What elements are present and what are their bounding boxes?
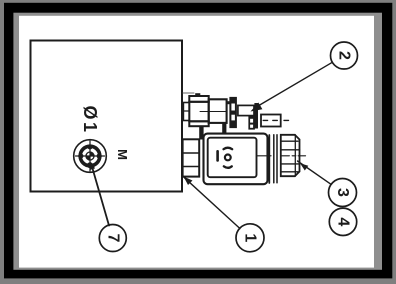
top fitting tab wedge (195, 93, 200, 97)
leader line to callout 2 (258, 62, 332, 106)
flange slot upper (231, 104, 235, 111)
solenoid nut top cap (189, 96, 208, 102)
knob crosshair horizontal (76, 155, 105, 157)
connector housing outer (204, 134, 268, 185)
solenoid cylinder (209, 99, 227, 123)
mounting pin right (222, 123, 226, 134)
callout circle 2 (331, 42, 358, 69)
knob petal S (87, 162, 93, 168)
leader line to callout 7 (92, 165, 110, 226)
top fitting faint line (183, 92, 194, 94)
lower flange plate (249, 117, 254, 130)
cap chamfer line (294, 135, 296, 176)
knob target quadrant NE (90, 152, 94, 156)
knob target quadrant SW (86, 156, 90, 160)
arrowhead leader 1 (184, 177, 193, 186)
callout circle 7 (99, 225, 126, 252)
knurled cap (281, 135, 300, 176)
svg-text:4: 4 (335, 217, 352, 226)
callout circle 4 (329, 208, 356, 235)
connector symbol bar (216, 150, 219, 162)
leader line to callout 3 (298, 161, 332, 184)
valve body box (31, 41, 183, 192)
gland line b (276, 135, 278, 183)
gland ring line (268, 135, 270, 183)
center dash c (298, 155, 305, 157)
connector symbol circle (225, 155, 231, 161)
center dash a (258, 155, 272, 157)
port center dash c (284, 119, 289, 121)
knob knurled ring (80, 146, 100, 166)
svg-text:7: 7 (104, 234, 121, 243)
knob crosshair vertical (89, 141, 91, 171)
cap rib 1 (281, 140, 298, 142)
cap rib 2 (281, 149, 300, 151)
connector symbol arc top (224, 148, 233, 150)
solenoid axis line (200, 111, 226, 113)
lower flange slot a (250, 119, 253, 123)
svg-text:2: 2 (336, 51, 353, 60)
knob petal W (78, 153, 83, 158)
leader line to callout 1 (184, 177, 240, 228)
terminal stack line a (183, 152, 200, 154)
arrowhead leader 3 (300, 163, 308, 170)
white drawing background (19, 16, 374, 268)
port cylinder F (261, 115, 281, 127)
mounting pin left (199, 126, 203, 139)
C-D junction tab (227, 101, 230, 104)
adjustment knob outer circle (74, 140, 107, 173)
arrowhead leader 7 (91, 162, 96, 170)
knob petal N (87, 144, 92, 149)
vertical flange bar G (254, 103, 258, 129)
terminal stack line b (183, 166, 200, 168)
lower flange slot b (250, 125, 253, 128)
callout circle 3 (329, 179, 357, 207)
knob target circle (86, 152, 94, 160)
callout circle 1 (236, 224, 264, 252)
coupler block E (238, 105, 254, 115)
svg-text:M: M (115, 149, 130, 160)
center dash b (281, 155, 289, 157)
arrowhead leader 2 (251, 103, 263, 112)
connector symbol arc bottom (224, 166, 232, 168)
solenoid nut bottom cap (189, 121, 208, 126)
flange plate D (230, 98, 236, 128)
knob petal E (97, 153, 102, 158)
center dash dot (292, 155, 296, 157)
top fitting collar mid line (183, 110, 189, 112)
svg-text:Ø1: Ø1 (80, 105, 100, 134)
cap rib 4 (281, 171, 298, 173)
cap rib 3 (281, 163, 300, 165)
gland line a (273, 135, 275, 183)
port center dash b (273, 119, 278, 121)
connector housing inner (208, 138, 257, 178)
terminal stack (183, 139, 200, 176)
solenoid nut body (189, 102, 208, 122)
knob center white (84, 150, 96, 162)
port center dash a (263, 119, 267, 121)
top fitting left collar (183, 103, 189, 121)
svg-text:3: 3 (334, 188, 351, 197)
flange slot lower (231, 115, 235, 121)
svg-text:1: 1 (242, 233, 259, 242)
